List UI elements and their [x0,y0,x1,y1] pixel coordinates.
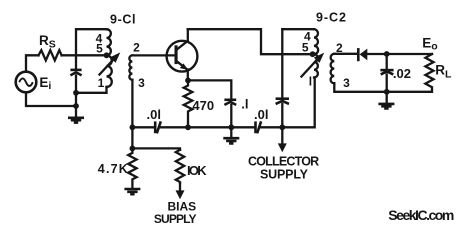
resistor 4.7K [128,148,136,188]
resistor RL [425,54,433,92]
svg-text:SUPPLY: SUPPLY [154,212,197,225]
resistor Rs [39,50,62,60]
wire Rs to transformer tap pin 5 [62,54,107,56]
svg-text:3: 3 [138,76,145,90]
transformer 9-C1 primary winding [107,29,112,87]
wire diode to output node [367,53,386,55]
capacitor input tuning (left, at x76) [70,70,81,76]
collector supply arrow [278,127,287,152]
wire output top to RL [387,53,432,55]
wire secondary bottom to rail [131,80,133,128]
resistor 10K [176,150,184,183]
svg-text:.02: .02 [393,66,411,81]
emitter to bypass cap wire [188,80,231,99]
capacitor .1 [224,100,236,105]
svg-text:4.7K: 4.7K [98,162,128,176]
variable core arrow 9-C1 [100,52,121,74]
transformer 9-C2 secondary winding [331,54,335,84]
wire source bottom to ground node [26,92,76,106]
bypass capacitor (unlabeled) [276,99,289,104]
node dot pin1 junction [73,90,79,96]
ground symbol under .1 cap [223,127,239,143]
wire pin4 9-C2 [282,28,314,30]
capacitor .02 [380,70,393,74]
svg-text:5: 5 [96,42,103,56]
svg-text:IOK: IOK [187,163,207,178]
wire bias junction to 10K [132,148,180,149]
diode CR1 [358,48,367,61]
wire source top to Rs [26,55,39,71]
node dot cap1 rail [228,124,234,130]
node dot collector supply [279,124,285,130]
svg-text:COLLECTOR: COLLECTOR [248,154,319,168]
node dot bias junction [130,146,136,152]
svg-text:1: 1 [98,76,105,90]
wire cap .02 to bottom rail [386,75,388,92]
svg-text:470: 470 [192,98,214,113]
bias branch: wire rail dot down [131,127,133,148]
transistor Q1 [167,41,198,72]
pin 5 tap dot [104,52,110,58]
wire vertical left branch top (pin4 loop) [76,29,107,69]
wire pin1 to left vertical [76,87,107,93]
svg-text:.0l: .0l [147,107,161,122]
collector top wire to 9-C2 tap [188,29,313,54]
svg-text:3: 3 [343,76,350,90]
svg-text:9-Cl: 9-Cl [110,12,136,26]
svg-text:.0l: .0l [254,107,268,122]
wire secondary top to diode [334,53,356,55]
collector wire up [187,29,189,41]
svg-text:5: 5 [302,41,309,55]
output node dot [384,51,390,57]
bottom out rail [334,83,431,92]
AC source Ei [16,72,37,93]
base wire [132,54,175,56]
node dot bottom left [73,103,79,109]
ground symbol 4.7K [124,189,140,194]
resistor 470 [184,83,193,127]
svg-text:.l: .l [241,97,248,112]
node dot rail left [130,124,136,130]
variable core arrow 9-C2 [302,53,325,77]
svg-text:SeekIC.com: SeekIC.com [388,207,454,223]
wire capacitor to ground [75,75,77,117]
svg-text:9-C2: 9-C2 [316,10,346,24]
transformer 9-C2 primary winding [314,29,318,77]
svg-text:SUPPLY: SUPPLY [260,168,309,182]
pin 5 tap dot 9-C2 [310,51,316,57]
ground symbol left [68,118,84,123]
ground symbol output [378,92,394,109]
bottom rail [132,78,314,128]
supply branch vertical [281,29,283,127]
svg-text:l: l [309,75,312,89]
svg-text:2: 2 [133,40,140,54]
emitter wire down [187,70,189,81]
wire output node to cap .02 [386,54,388,70]
transformer 9-C1 secondary winding [129,55,132,79]
node dot 470 rail [185,124,191,130]
emitter node dot [185,78,191,84]
node dot out rail [384,89,390,95]
series capacitor .01 left [155,121,161,133]
bias supply arrow [176,183,185,199]
wire cap .1 to rail [230,105,232,127]
series capacitor .01 right [256,121,262,133]
